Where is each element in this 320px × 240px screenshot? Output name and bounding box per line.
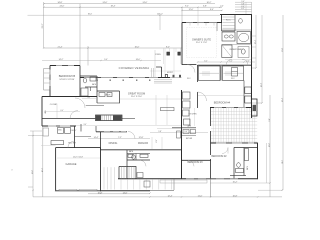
wall garage right [100, 148, 102, 192]
veranda post 1 [167, 52, 170, 55]
dim ext x182 top [181, 7, 183, 23]
dim ext x80 [79, 4, 81, 65]
kitchen range [184, 119, 191, 125]
dim ext left bottom x33 [32, 131, 34, 197]
svg-text:28'-0": 28'-0" [269, 142, 271, 147]
laundry d [65, 128, 71, 134]
svg-text:12'-2": 12'-2" [261, 82, 263, 87]
dim ext right x262 [261, 15, 263, 103]
svg-text:16'-0": 16'-0" [136, 59, 141, 61]
arc hall2 [70, 111, 78, 119]
svg-text:BEDROOM #3: BEDROOM #3 [187, 162, 203, 164]
dim line top D owner [182, 9, 222, 11]
mud bench [51, 141, 64, 145]
wall left wing bottom [42, 96, 97, 98]
wall wic y31 [222, 30, 236, 32]
svg-text:6'-2": 6'-2" [204, 60, 208, 62]
svg-text:BEDROOM #5: BEDROOM #5 [59, 75, 76, 78]
garage door panel 2 [79, 189, 97, 191]
wall y153.5 [127, 153, 150, 155]
porch edge right [173, 179, 175, 190]
kitchen cab3 [183, 110, 190, 116]
svg-text:6'-2": 6'-2" [229, 60, 233, 62]
arc bed3 [188, 160, 194, 166]
entry door line [170, 77, 182, 79]
bottom wall dark extension [101, 190, 151, 192]
wall owner suite left [181, 23, 183, 65]
svg-text:12'-4": 12'-4" [168, 196, 173, 198]
floor line y125.5 [76, 125, 181, 127]
wall x100.5 upper [100, 132, 102, 150]
owner vanity [222, 32, 235, 41]
bathcell toilet [132, 155, 135, 159]
linen stack 2 [245, 96, 251, 103]
bath4 wall x244 [243, 81, 245, 108]
entry steps below [154, 80, 172, 83]
bath floor line y44.5 [222, 43, 252, 45]
wall bath y76 [80, 75, 97, 77]
svg-text:W.I.C.: W.I.C. [226, 20, 231, 22]
owner wc room [238, 47, 249, 58]
wall right exterior upper [251, 15, 253, 119]
svg-text:GARAGE: GARAGE [66, 162, 77, 166]
svg-text:24'-0": 24'-0" [103, 2, 108, 4]
wall x97 [96, 76, 98, 103]
veranda edge x174 [173, 48, 175, 78]
svg-text:W.I.C.: W.I.C. [231, 78, 236, 80]
arc wic doors [226, 59, 248, 65]
fireplace outdoor [252, 99, 258, 116]
svg-text:6'-8": 6'-8" [203, 6, 207, 8]
stairdown treads [122, 167, 135, 179]
svg-text:BEDROOM #4: BEDROOM #4 [214, 101, 231, 104]
suite wall jog [216, 23, 218, 32]
dim ext left bottom x41 [42, 126, 44, 197]
dim line top A [44, 3, 215, 5]
porch deck lines [104, 167, 171, 189]
wall dining bay y131.5 [96, 131, 127, 133]
wall y175.5 [230, 175, 246, 177]
butler pantry counters [183, 130, 189, 134]
rear steps blocks [137, 173, 143, 178]
wall step x221.5 [221, 15, 223, 23]
veranda edge x155 [154, 50, 156, 78]
wall y118.5 right seg [122, 118, 135, 120]
svg-text:5'-0": 5'-0" [220, 6, 224, 8]
dim line bottom y183 [210, 182, 270, 184]
closet bump shelves [44, 69, 50, 91]
dim line y62 bedroom4 [198, 61, 256, 63]
svg-text:18'-6": 18'-6" [282, 160, 284, 164]
svg-text:8'-4": 8'-4" [210, 9, 214, 11]
dim line y131 left [30, 130, 42, 132]
kitchen cab2 [183, 101, 191, 108]
svg-text:17'-4": 17'-4" [255, 39, 257, 44]
svg-text:9'-8": 9'-8" [269, 118, 271, 122]
dim tick y185 [28, 186, 33, 188]
wall x221.5 lower seg [221, 23, 223, 32]
powder sink1 [99, 93, 105, 97]
wall hall y118.5 left [42, 118, 96, 120]
dim ext x88 [87, 46, 89, 66]
laundry w [58, 128, 64, 134]
svg-text:OWNER'S SUITE: OWNER'S SUITE [192, 38, 211, 41]
hall tiny texts [61, 97, 159, 143]
svg-text:100'-2": 100'-2" [157, 14, 163, 16]
dim stack top-right [235, 2, 252, 15]
bath2 tub [81, 88, 88, 96]
svg-text:5'-0": 5'-0" [104, 59, 108, 61]
wall left wing left [49, 66, 51, 97]
wic shelving [223, 17, 235, 28]
wall right lower exterior [257, 143, 259, 179]
entry steps [152, 68, 154, 77]
dim ext x160 [159, 15, 161, 30]
svg-text:36'-0": 36'-0" [88, 14, 93, 16]
closet rods [200, 72, 244, 74]
floor line y59.5 bath [225, 59, 251, 61]
svg-text:BEDROOM #2: BEDROOM #2 [211, 156, 227, 158]
mud closet [43, 128, 49, 136]
dim line y132.5 interior [150, 132, 208, 134]
svg-text:GREAT ROOM: GREAT ROOM [128, 91, 145, 95]
wall powder top [97, 90, 120, 92]
wall patio top [210, 107, 252, 109]
dim text y60 row [104, 59, 140, 61]
wall owner suite top [182, 22, 222, 24]
wall wic closet x235 [234, 15, 236, 32]
svg-text:3'-6": 3'-6" [84, 124, 87, 126]
svg-text:24'-0": 24'-0" [60, 6, 65, 8]
garage door panel 1 [59, 189, 77, 191]
porch edge bottom [101, 190, 175, 192]
svg-text:8'-0": 8'-0" [156, 139, 158, 142]
svg-text:15'-2": 15'-2" [233, 181, 238, 183]
wall left wing right [79, 66, 81, 97]
patio wall extension down [210, 179, 212, 197]
wall y105.5 [86, 105, 104, 107]
dim line top long C [28, 14, 221, 16]
svg-text:OWNER'S BATH: OWNER'S BATH [229, 48, 243, 51]
wall entry side [161, 67, 163, 78]
closet drawers bedroom4 [232, 68, 238, 77]
svg-text:BUTLER: BUTLER [186, 138, 193, 140]
svg-text:58'-4": 58'-4" [282, 97, 284, 102]
wall powder bottom [97, 102, 120, 104]
dimension texts [11, 1, 284, 198]
wall x244 bath [243, 148, 245, 176]
dim line y138.7 interior [88, 138, 150, 140]
wall left lower x42 [41, 97, 43, 127]
veranda post 2 [178, 52, 181, 55]
wall y147.5 [234, 147, 258, 149]
wall laundry south y126 [42, 125, 76, 127]
svg-text:18'-4": 18'-4" [111, 6, 116, 8]
svg-text:6'-2": 6'-2" [241, 8, 245, 10]
svg-text:3'-8": 3'-8" [241, 3, 245, 5]
entry porch lines [164, 48, 181, 64]
svg-text:9'-2": 9'-2" [185, 6, 189, 8]
svg-text:4'-2": 4'-2" [88, 97, 91, 99]
wall wic bottom [198, 64, 252, 66]
svg-text:22'-0" X 22'-8": 22'-0" X 22'-8" [73, 157, 84, 159]
dim ext right x270 [269, 95, 271, 197]
svg-text:3'-0": 3'-0" [246, 60, 250, 62]
svg-text:6'-0": 6'-0" [61, 110, 64, 112]
wall y149.8 [101, 149, 182, 151]
arc dining [128, 132, 135, 139]
svg-text:CLOSET: CLOSET [50, 104, 58, 106]
bath2 toilet [83, 78, 87, 83]
svg-text:DINING: DINING [109, 142, 118, 145]
right bottom dim seg [258, 189, 283, 191]
closet2 bedroom4 [223, 66, 244, 81]
owner shower [222, 45, 232, 58]
dim ext right x266.5 [266, 143, 268, 183]
arc bedroom4 door [198, 92, 207, 101]
wall kitchen x181.5 [181, 90, 183, 179]
svg-text:14'-6": 14'-6" [123, 192, 128, 194]
kitchen nook counter y127.8 [172, 127, 196, 129]
svg-text:MUD RM: MUD RM [68, 142, 76, 144]
floor line y145.5 [41, 145, 56, 147]
rod hangers [203, 71, 230, 76]
room labels [50, 20, 244, 166]
wall y160 bath cells [127, 159, 150, 161]
svg-text:34'-8": 34'-8" [58, 2, 63, 4]
svg-text:19'-0" X 23'-0": 19'-0" X 23'-0" [131, 96, 143, 98]
svg-text:5'-8": 5'-8" [158, 131, 162, 133]
wall top of WIC block [220, 14, 252, 16]
entry posts [165, 75, 167, 78]
svg-text:14'-4": 14'-4" [94, 137, 99, 139]
svg-text:12'-8": 12'-8" [139, 137, 144, 139]
floor line y158 garage [57, 157, 100, 159]
svg-text:PORCH: PORCH [155, 54, 160, 56]
wall x96 [95, 126, 97, 132]
tick marks top line A [32, 3, 282, 198]
closet1 bedroom4 [199, 66, 221, 81]
svg-text:KITCHEN: KITCHEN [189, 114, 198, 116]
svg-text:PARLOR: PARLOR [138, 142, 148, 145]
closet divider [220, 66, 222, 81]
dim line veranda y48 [44, 47, 182, 49]
dim tick right y103 [252, 102, 263, 104]
wall stairdown block [119, 167, 136, 179]
wall garage bottom [56, 190, 101, 192]
dim line left wing y60.5 [42, 60, 161, 62]
bath and kitchen fixtures [43, 19, 256, 191]
wall bath x90.5 [90, 87, 92, 91]
svg-text:20'-6": 20'-6" [42, 167, 44, 172]
bath floor line y30 [222, 29, 252, 31]
svg-text:8'-0": 8'-0" [166, 47, 170, 49]
svg-text:W.I.C.: W.I.C. [187, 78, 192, 80]
stairs [96, 115, 123, 121]
interior line x156 [155, 95, 157, 125]
hall dim segs [44, 99, 181, 150]
wall mud y136.3 [75, 135, 92, 137]
wall y160 bed3 [182, 159, 211, 161]
wall garage top [56, 147, 101, 149]
bath3 toilet [237, 163, 241, 168]
dim line bottom y197 [33, 196, 282, 198]
right wall ticks [252, 36, 257, 58]
bathcell vanity [128, 154, 133, 157]
svg-text:21'-4": 21'-4" [58, 47, 63, 49]
svg-text:COVERED VERANDA: COVERED VERANDA [119, 66, 150, 70]
window center lines [48, 23, 254, 179]
wall entry top [156, 66, 162, 68]
dim line top B [44, 6, 222, 8]
wall x127 [126, 150, 128, 179]
floor line y99 [120, 98, 181, 100]
dim ext left x44 [43, 2, 45, 48]
beam marks great room ceiling [97, 80, 151, 81]
svg-text:5'-4": 5'-4" [241, 1, 245, 3]
covered patio paver grid [211, 108, 257, 143]
kitchen counter lines [188, 108, 190, 126]
wall left wing top [50, 65, 80, 67]
wall x74.5 [74, 126, 76, 148]
dim ext right x283 [282, 15, 284, 190]
svg-text:16'-0": 16'-0" [135, 47, 140, 49]
svg-text:11'-0": 11'-0" [198, 196, 203, 198]
svg-text:STUDY 12'X14': STUDY 12'X14' [59, 79, 75, 81]
toilet top right [239, 19, 243, 24]
dim ext right x256 [255, 15, 257, 68]
bath3 tub [245, 149, 249, 161]
veranda edge x165 [164, 48, 166, 78]
wall mud x81 [80, 124, 82, 132]
svg-text:14'-2": 14'-2" [59, 59, 64, 61]
svg-text:23'-2": 23'-2" [42, 23, 44, 28]
wall house bottom y178.8 [118, 178, 258, 180]
floor line y95.5 [198, 95, 244, 97]
interior line x167 [166, 95, 168, 125]
svg-text:9'-4": 9'-4" [184, 131, 188, 133]
wall patio bottom [211, 142, 258, 144]
bath3 vanity [236, 169, 244, 173]
kitchen cab1 [183, 92, 191, 99]
arc bathcell [140, 160, 146, 166]
wall veranda south y77.5 [80, 77, 170, 79]
wall bath y87 [85, 86, 97, 88]
dim ext x198 [197, 7, 199, 22]
rear steps strip [160, 180, 207, 183]
dim tick right y68 [252, 67, 257, 69]
dim line bottom y193 [88, 193, 150, 195]
arc garage mud [68, 141, 75, 148]
powder sink2 [107, 93, 112, 97]
window gaps (white dashes over walls) [48, 23, 254, 179]
wall patio left [210, 108, 212, 179]
svg-text:15'-0" X 17'-8": 15'-0" X 17'-8" [196, 42, 208, 44]
svg-text:4'-0": 4'-0" [241, 6, 245, 8]
entry door marks [173, 75, 175, 78]
svg-text:LNDRY: LNDRY [71, 130, 78, 132]
svg-text:ENTRY: ENTRY [167, 72, 174, 74]
svg-text:21'-0": 21'-0" [282, 48, 284, 52]
owner tub [237, 32, 251, 44]
kitchen island [161, 108, 175, 111]
arc bed2 [222, 148, 228, 154]
svg-text:10'-2": 10'-2" [207, 2, 212, 4]
svg-text:24'-0": 24'-0" [143, 2, 148, 4]
wall bed2 bath divider x234 [233, 148, 235, 179]
wall garage left [55, 148, 57, 192]
svg-text:16'-8": 16'-8" [233, 196, 238, 198]
arc owner entry [187, 65, 195, 73]
wall owner suite bottom [182, 64, 196, 66]
svg-text:7'-2": 7'-2" [118, 137, 122, 139]
door arcs [68, 59, 248, 166]
arc hall1 [75, 98, 85, 108]
bathcell vanity2 [140, 154, 148, 157]
svg-text:12'-6": 12'-6" [189, 9, 194, 11]
svg-text:24'-0": 24'-0" [32, 169, 34, 174]
wall powder right [119, 91, 121, 103]
suite tray ceiling [187, 28, 217, 58]
wall x136 [135, 154, 137, 161]
linen stack 1 [245, 87, 251, 94]
wall bedroom4 left [197, 65, 199, 108]
bath2 vanity [90, 77, 96, 81]
dim tick y135.6 [28, 135, 43, 137]
